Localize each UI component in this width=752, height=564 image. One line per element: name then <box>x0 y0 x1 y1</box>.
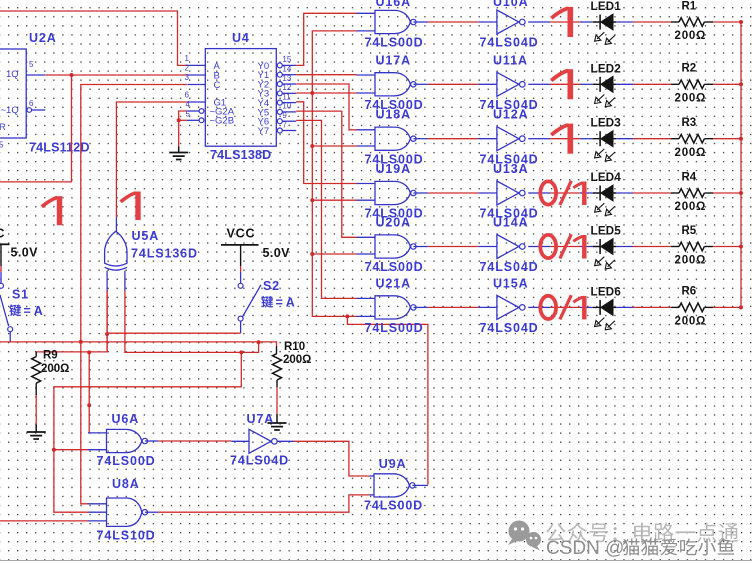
svg-text:74LS00D: 74LS00D <box>365 36 424 50</box>
svg-text:LED5: LED5 <box>591 226 622 238</box>
NAND gate U8A (74LS10D), 3-input <box>88 477 158 543</box>
LED6 <box>591 286 622 329</box>
inverter U12A (74LS04D) <box>478 108 538 167</box>
probe value 1 (left) <box>57 196 62 225</box>
NAND gate U21A (74LS00D) <box>357 276 428 335</box>
U4 output Y5 bubble, stub, pin 10 <box>277 102 296 115</box>
U4 output Y2 bubble, stub, pin 13 <box>277 74 296 87</box>
LED1 <box>591 1 622 44</box>
svg-text:200Ω: 200Ω <box>41 363 69 375</box>
wire: S2 to U5A input 1 <box>107 291 241 352</box>
svg-text:C: C <box>214 80 221 91</box>
inverter U10A (74LS04D) <box>478 0 538 50</box>
wire: U18A output to U12A input <box>428 138 478 140</box>
svg-text:200Ω: 200Ω <box>675 93 707 105</box>
svg-text:U16A: U16A <box>376 0 412 9</box>
wire: U20A output to U14A input <box>428 246 478 248</box>
wire: LED5 to R5 <box>616 246 679 248</box>
LED2 <box>591 63 622 106</box>
svg-text:U7A: U7A <box>247 412 275 426</box>
svg-text:U13A: U13A <box>493 162 529 176</box>
svg-text:U6A: U6A <box>112 412 140 426</box>
wire: ~G2A and ~G2B to ground <box>179 111 187 147</box>
svg-text:9: 9 <box>282 111 287 120</box>
svg-text:LED3: LED3 <box>591 118 622 130</box>
svg-text:10: 10 <box>282 102 291 111</box>
flip-flop U2A (74LS112D), box clipped at left edge <box>0 31 90 155</box>
node: junction S2/U5A <box>105 332 109 336</box>
watermark logo (chat bubbles) <box>508 521 541 551</box>
svg-text:5.0V: 5.0V <box>263 246 291 260</box>
wire: U15A output to LED6 <box>538 306 593 308</box>
decoder U4 (74LS138D) body <box>205 31 276 162</box>
resistor R2 200&#937; <box>675 63 714 105</box>
resistor R5 200&#937; <box>675 225 714 267</box>
svg-text:R3: R3 <box>682 117 697 129</box>
svg-text:2: 2 <box>185 64 190 73</box>
svg-text:Y7: Y7 <box>258 126 270 137</box>
wire: LED2 to R2 <box>616 83 679 85</box>
svg-text:200Ω: 200Ω <box>283 354 311 366</box>
XOR gate U5A (74LS136D), pointing up <box>105 217 198 290</box>
node: strobe junctions on vertical bus <box>310 91 349 318</box>
NAND gate U9A (74LS00D) <box>364 457 428 513</box>
svg-text:74LS04D: 74LS04D <box>480 36 539 50</box>
svg-text:74LS00D: 74LS00D <box>364 499 423 513</box>
svg-text:14: 14 <box>282 65 291 74</box>
wire: LED3 to R3 <box>616 138 679 140</box>
wire: U5A input 2 down right <box>125 291 259 353</box>
inverter U11A (74LS04D) <box>478 53 538 112</box>
resistor R10 200&#937; <box>273 341 312 414</box>
wire: U17A output to U11A input <box>428 83 478 85</box>
resistor R9 200&#937; <box>32 350 70 425</box>
svg-text:VCC: VCC <box>227 227 256 241</box>
U4 ~G2B pin bubble and stub <box>187 118 204 123</box>
watermark text line 1 <box>546 523 565 542</box>
svg-text:R9: R9 <box>43 350 58 362</box>
node: junction U2A 1Q <box>70 73 74 77</box>
bottom scrollbar edge <box>0 560 752 562</box>
svg-text:200Ω: 200Ω <box>675 147 707 159</box>
svg-text:R10: R10 <box>284 341 305 353</box>
svg-text:R1: R1 <box>682 0 697 12</box>
wire: LED6 to R6 <box>616 306 679 308</box>
U4 output Y1 bubble, stub, pin 14 <box>277 65 296 78</box>
svg-text:74LS04D: 74LS04D <box>480 260 539 274</box>
ground under R10 <box>268 414 287 430</box>
ground under R9 <box>27 425 46 440</box>
probe value 1 <box>567 124 573 154</box>
VCC supply symbol <box>221 227 290 284</box>
wire: R4 to right bus <box>713 192 741 194</box>
svg-text:= A: = A <box>24 304 43 318</box>
NAND gate U20A (74LS00D) <box>357 216 428 275</box>
wire: Y2 to U18A input 1 <box>296 84 356 130</box>
wire: main horizontal net (left edge to R10) <box>0 342 277 346</box>
probe value 0/1 <box>540 235 556 258</box>
wire: R5 to right bus <box>713 246 741 248</box>
svg-text:U17A: U17A <box>376 53 412 67</box>
wire: shared strobe bus to second inputs of U16A..U21A <box>312 31 356 317</box>
svg-text:5: 5 <box>0 141 4 150</box>
svg-text:LED6: LED6 <box>591 286 622 298</box>
wire: U14A output to LED5 <box>538 246 593 248</box>
svg-text:1: 1 <box>185 54 190 63</box>
svg-text:13: 13 <box>282 74 291 83</box>
node: junction at ~G2B <box>177 118 181 122</box>
NAND gate U17A (74LS00D) <box>357 53 428 112</box>
svg-text:R6: R6 <box>682 286 697 298</box>
svg-text:= A: = A <box>276 296 295 310</box>
node: junctions lower net <box>52 350 243 451</box>
wire: Y3 to U17A input 2 <box>296 92 356 94</box>
ground under U4 enable pins <box>169 147 188 160</box>
svg-text:~G2B: ~G2B <box>210 116 235 127</box>
wire: R3 to right bus <box>713 138 741 140</box>
wire: left edge to U4 pin A <box>0 11 187 65</box>
svg-text:S2: S2 <box>263 279 280 293</box>
svg-text:6: 6 <box>29 99 34 108</box>
node: junctions on R9 net <box>87 350 91 407</box>
wire: left edge to U8A input 3 <box>0 520 88 522</box>
wire: U12A output to LED3 <box>538 138 593 140</box>
wire: U9A output up to strobe bus <box>347 316 428 484</box>
resistor R4 200&#937; <box>675 171 714 213</box>
svg-text:U11A: U11A <box>493 53 528 67</box>
wire: U5A output up to U4 G1 <box>116 102 187 217</box>
inverter U13A (74LS04D) <box>478 162 538 221</box>
LED3 <box>591 118 622 161</box>
inverter U14A (74LS04D) <box>478 216 538 275</box>
wire: U19A output to U13A input <box>428 192 478 194</box>
svg-text:U4: U4 <box>232 31 250 45</box>
LED4 <box>591 172 622 215</box>
wire: U7A output to U9A input 1 <box>294 441 369 476</box>
svg-text:U14A: U14A <box>493 216 529 230</box>
probe value 1 (right) <box>135 192 140 221</box>
svg-text:CSDN @: CSDN @ <box>546 538 624 559</box>
svg-text:R2: R2 <box>682 63 697 75</box>
VCC bar for S1 (clipped) <box>0 227 38 284</box>
svg-text:U10A: U10A <box>493 0 529 9</box>
svg-text:200Ω: 200Ω <box>675 30 707 42</box>
svg-text:LED2: LED2 <box>591 63 622 75</box>
U4 output Y0 bubble, stub, pin 15 <box>277 55 296 68</box>
wire: Y4 to U19A input 1 <box>296 102 356 184</box>
svg-text:11: 11 <box>282 92 291 101</box>
svg-text:S1: S1 <box>12 288 29 302</box>
node: junction on main net at U4.C riser <box>79 340 261 344</box>
probe value 1 <box>567 69 573 99</box>
svg-text:15: 15 <box>282 55 291 64</box>
wire: R1 to right bus <box>713 21 741 23</box>
wire: R6 to right bus <box>713 306 741 308</box>
wire: Y0 to U16A input 1 <box>296 13 356 65</box>
svg-text:74LS04D: 74LS04D <box>230 454 289 468</box>
probe value 0/1 <box>540 181 556 204</box>
wire: R9/U6A net <box>88 352 89 433</box>
svg-text:74LS04D: 74LS04D <box>480 321 539 335</box>
NAND gate U18A (74LS00D) <box>357 108 428 167</box>
NAND gate U19A (74LS00D) <box>357 162 428 221</box>
LED5 <box>591 226 622 269</box>
switch S1 (key = A), clipped at left edge <box>0 283 43 342</box>
wire: Y6 to U21A input 1 <box>296 120 356 298</box>
wire: common right bus <box>740 22 742 307</box>
U4 output Y4 bubble, stub, pin 11 <box>277 92 296 105</box>
wire: U10A output to LED1 <box>538 21 593 23</box>
svg-text:74LS136D: 74LS136D <box>131 247 198 261</box>
wire: U6A output to U7A input <box>158 440 231 442</box>
resistor R6 200&#937; <box>675 286 714 328</box>
inverter U15A (74LS04D) <box>478 276 538 335</box>
wire: U4 pin C long riser down to U8A input 1 <box>81 85 187 504</box>
probe value 1 <box>567 7 573 37</box>
svg-text:200Ω: 200Ω <box>675 255 707 267</box>
wire: LED1 to R1 <box>616 21 679 23</box>
wire: R2 to right bus <box>713 83 741 85</box>
wire: U11A output to LED2 <box>538 83 593 85</box>
wire: lower distribution net to U6A.2/U8A.2 <box>54 352 241 512</box>
svg-text:R: R <box>0 122 6 133</box>
wire: LED4 to R4 <box>616 192 679 194</box>
wire: U13A output to LED4 <box>538 192 593 194</box>
svg-text:U19A: U19A <box>376 162 412 176</box>
NAND gate U16A (74LS00D) <box>357 0 428 50</box>
resistor R3 200&#937; <box>675 117 714 159</box>
wire: Y1 to U17A input 1 <box>296 74 356 76</box>
svg-text:74LS00D: 74LS00D <box>97 454 156 468</box>
svg-text:74LS00D: 74LS00D <box>365 260 424 274</box>
svg-text:VCC: VCC <box>0 227 5 241</box>
svg-text:U9A: U9A <box>379 457 407 471</box>
svg-text:6: 6 <box>185 91 190 100</box>
resistor R1 200&#937; <box>675 0 714 42</box>
svg-text:U2A: U2A <box>29 31 57 45</box>
NAND gate U6A (74LS00D) <box>88 412 158 468</box>
wire: U5A input 1 down to S2 net <box>36 291 107 352</box>
svg-text:7: 7 <box>282 120 287 129</box>
svg-text:74LS10D: 74LS10D <box>97 529 156 543</box>
wire: U8A output to U9A input 2 <box>158 495 369 512</box>
svg-text:U20A: U20A <box>376 216 412 230</box>
svg-text:1Q: 1Q <box>6 69 19 80</box>
svg-text:200Ω: 200Ω <box>675 201 707 213</box>
svg-text:U21A: U21A <box>376 276 412 290</box>
U4 output Y7 bubble, stub, pin 7 <box>277 120 296 133</box>
svg-text:12: 12 <box>282 83 291 92</box>
svg-text:3: 3 <box>185 73 190 82</box>
svg-text:U18A: U18A <box>376 108 412 122</box>
svg-text:200Ω: 200Ω <box>675 316 707 328</box>
wire: U2A 1Q to U4 pin B, branch down-left <box>0 75 187 182</box>
inverter U7A (74LS04D) <box>230 412 294 468</box>
pin 6 ~1Q bubble and stub <box>27 108 45 113</box>
svg-text:LED1: LED1 <box>591 1 622 13</box>
svg-text:~1Q: ~1Q <box>1 105 19 116</box>
U4 ~G2A pin bubble and stub <box>187 109 204 114</box>
svg-text:U15A: U15A <box>493 276 529 290</box>
svg-text:R5: R5 <box>682 225 697 237</box>
svg-text:5: 5 <box>29 60 34 69</box>
probe value 0/1 <box>540 296 556 319</box>
svg-text:5.0V: 5.0V <box>11 246 39 260</box>
svg-text:74LS138D: 74LS138D <box>210 148 271 162</box>
svg-text:R4: R4 <box>682 171 697 183</box>
wire: U16A output to U10A input <box>428 21 478 23</box>
svg-text:U12A: U12A <box>493 108 529 122</box>
U4 input pin stubs A,B,C,G1 + pin numbers 1,2,3,6 <box>185 54 206 118</box>
node: bus junctions <box>739 20 743 309</box>
svg-text:U8A: U8A <box>112 477 140 491</box>
wire: Y5 to U20A input 1 <box>296 111 356 237</box>
U4 output Y3 bubble, stub, pin 12 <box>277 83 296 96</box>
wire: U21A output to U15A input <box>428 306 478 308</box>
svg-text:74LS00D: 74LS00D <box>365 321 424 335</box>
switch S2 (key = A) <box>238 279 295 333</box>
svg-text:U5A: U5A <box>132 229 160 243</box>
U4 output Y6 bubble, stub, pin 9 <box>277 111 296 124</box>
svg-text:LED4: LED4 <box>591 172 622 184</box>
